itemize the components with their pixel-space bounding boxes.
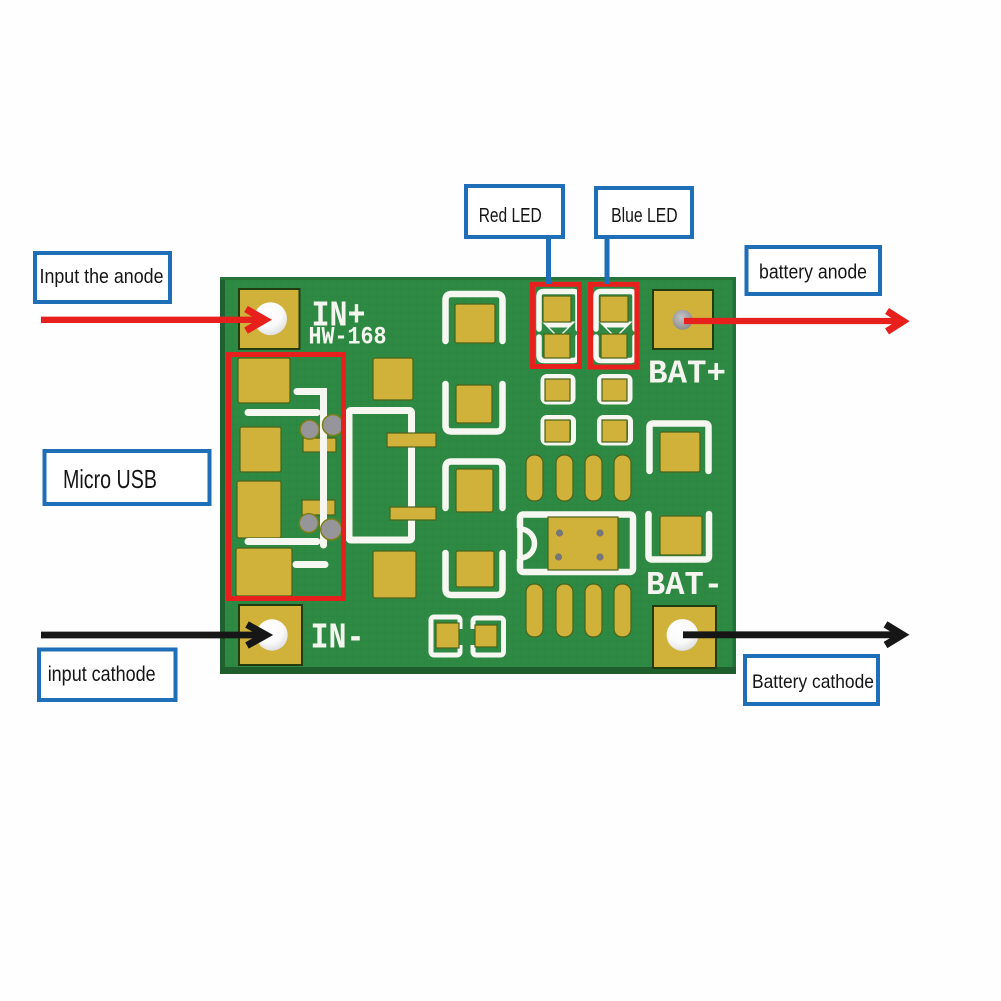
svg-text:battery anode: battery anode	[759, 262, 867, 284]
svg-text:BAT-: BAT-	[646, 567, 723, 605]
svg-text:IN-: IN-	[311, 617, 365, 658]
svg-text:Battery cathode: Battery cathode	[752, 671, 874, 693]
svg-text:input cathode: input cathode	[48, 663, 156, 686]
svg-text:Red LED: Red LED	[479, 205, 542, 227]
svg-text:HW-168: HW-168	[309, 324, 387, 352]
svg-text:Micro USB: Micro USB	[63, 464, 157, 494]
svg-text:Blue LED: Blue LED	[611, 205, 678, 227]
svg-text:Input the anode: Input the anode	[40, 266, 164, 288]
svg-text:BAT+: BAT+	[648, 355, 726, 392]
